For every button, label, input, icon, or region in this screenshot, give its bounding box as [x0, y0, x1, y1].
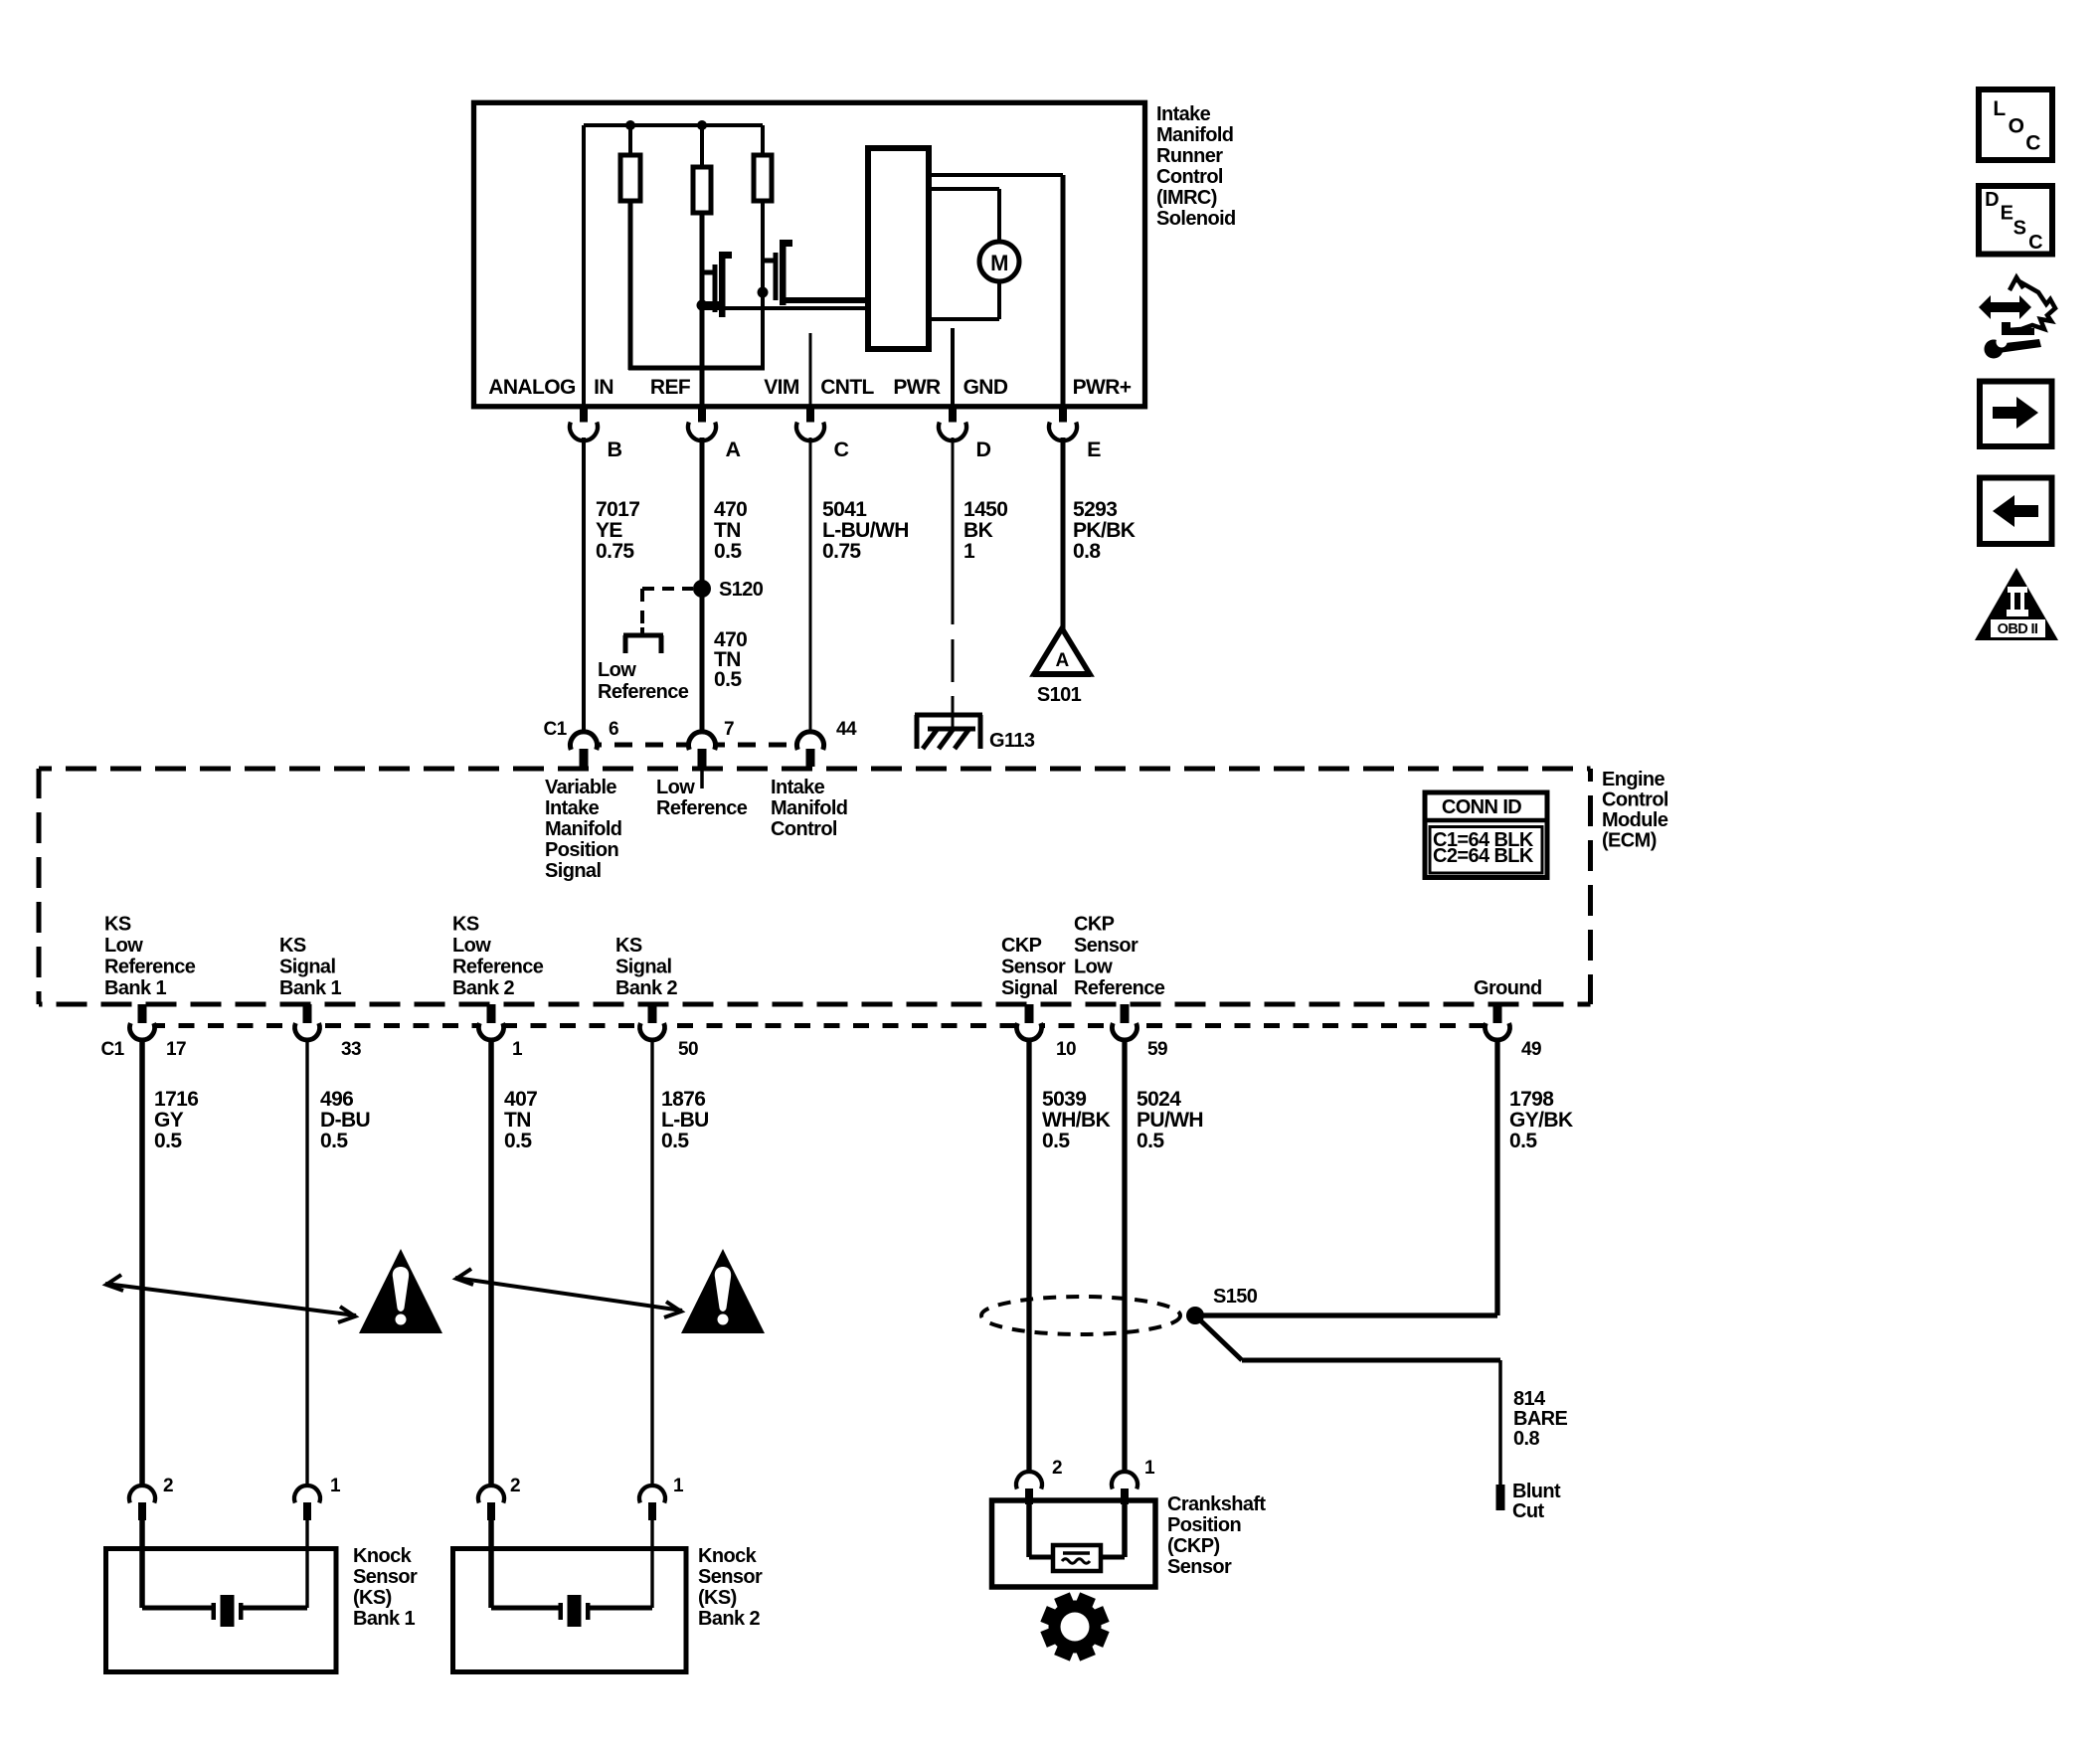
svg-text:0.5: 0.5	[504, 1130, 532, 1152]
svg-text:E: E	[2001, 203, 2013, 225]
svg-text:L-BU: L-BU	[661, 1109, 709, 1132]
svg-text:OBD II: OBD II	[1998, 621, 2038, 637]
svg-text:Low: Low	[598, 659, 636, 681]
svg-text:IN: IN	[594, 376, 613, 399]
svg-text:0.5: 0.5	[714, 668, 742, 691]
svg-text:0.75: 0.75	[822, 540, 861, 563]
svg-text:Bank 1: Bank 1	[104, 977, 166, 999]
svg-text:0.8: 0.8	[1073, 540, 1101, 563]
svg-text:G113: G113	[989, 730, 1035, 752]
svg-text:44: 44	[836, 719, 857, 740]
svg-text:BK: BK	[963, 519, 993, 542]
svg-text:VIM: VIM	[764, 376, 799, 399]
svg-text:Blunt: Blunt	[1512, 1481, 1561, 1502]
svg-text:7017: 7017	[596, 498, 639, 521]
svg-text:Engine: Engine	[1602, 769, 1665, 790]
svg-text:1450: 1450	[963, 498, 1007, 521]
svg-text:1: 1	[330, 1476, 341, 1496]
svg-text:GY: GY	[154, 1109, 184, 1132]
svg-text:C2=64 BLK: C2=64 BLK	[1433, 845, 1534, 867]
svg-text:17: 17	[166, 1039, 186, 1060]
svg-text:Manifold: Manifold	[1156, 124, 1233, 146]
svg-text:GND: GND	[963, 376, 1008, 399]
svg-text:1798: 1798	[1509, 1088, 1554, 1111]
svg-text:Signal: Signal	[615, 957, 671, 978]
svg-text:Control: Control	[1156, 166, 1223, 188]
svg-text:1: 1	[512, 1039, 523, 1060]
svg-text:D: D	[976, 438, 991, 461]
svg-text:YE: YE	[596, 519, 622, 542]
svg-text:Ground: Ground	[1474, 977, 1542, 999]
svg-text:TN: TN	[504, 1109, 531, 1132]
svg-text:Sensor: Sensor	[353, 1566, 418, 1588]
svg-text:(ECM): (ECM)	[1602, 830, 1657, 852]
svg-text:Knock: Knock	[698, 1545, 758, 1567]
svg-text:1: 1	[963, 540, 975, 563]
svg-text:Crankshaft: Crankshaft	[1167, 1493, 1266, 1515]
svg-text:Position: Position	[1167, 1514, 1241, 1536]
svg-text:50: 50	[678, 1039, 698, 1060]
svg-text:(KS): (KS)	[353, 1587, 392, 1609]
svg-text:1716: 1716	[154, 1088, 198, 1111]
svg-text:0.5: 0.5	[1137, 1130, 1164, 1152]
svg-text:0.5: 0.5	[714, 540, 742, 563]
svg-text:D: D	[1985, 189, 1999, 211]
svg-text:470: 470	[714, 498, 747, 521]
svg-text:PU/WH: PU/WH	[1137, 1109, 1203, 1132]
svg-text:0.8: 0.8	[1513, 1428, 1539, 1450]
svg-text:PWR: PWR	[893, 376, 941, 399]
svg-text:Bank 1: Bank 1	[279, 977, 341, 999]
svg-text:0.5: 0.5	[320, 1130, 348, 1152]
svg-text:Bank 2: Bank 2	[615, 977, 677, 999]
svg-text:O: O	[2009, 115, 2024, 138]
svg-text:1: 1	[673, 1476, 684, 1496]
svg-text:Runner: Runner	[1156, 145, 1223, 167]
svg-text:KS: KS	[104, 914, 131, 936]
svg-text:Sensor: Sensor	[1074, 935, 1138, 957]
svg-text:WH/BK: WH/BK	[1042, 1109, 1111, 1132]
svg-text:TN: TN	[714, 519, 741, 542]
svg-text:Intake: Intake	[771, 777, 825, 798]
svg-text:10: 10	[1056, 1039, 1076, 1060]
svg-text:L: L	[1993, 97, 2006, 120]
svg-text:59: 59	[1147, 1039, 1167, 1060]
svg-text:Control: Control	[771, 818, 837, 840]
svg-text:C: C	[834, 438, 849, 461]
svg-text:Sensor: Sensor	[1001, 957, 1066, 978]
svg-text:Reference: Reference	[598, 681, 689, 703]
svg-text:Sensor: Sensor	[1167, 1556, 1232, 1578]
svg-text:0.5: 0.5	[661, 1130, 689, 1152]
svg-text:KS: KS	[279, 935, 306, 957]
svg-text:Bank 1: Bank 1	[353, 1608, 415, 1630]
svg-text:C1: C1	[100, 1039, 124, 1060]
svg-text:7: 7	[724, 719, 734, 740]
svg-text:ANALOG: ANALOG	[488, 376, 576, 399]
svg-text:Module: Module	[1602, 809, 1668, 831]
svg-text:E: E	[1087, 438, 1101, 461]
svg-text:Control: Control	[1602, 789, 1668, 811]
svg-text:Low: Low	[452, 935, 491, 957]
svg-text:Reference: Reference	[656, 797, 748, 819]
svg-text:C1: C1	[543, 719, 567, 740]
svg-text:Manifold: Manifold	[771, 797, 847, 819]
svg-text:PWR+: PWR+	[1073, 376, 1132, 399]
svg-text:(KS): (KS)	[698, 1587, 737, 1609]
svg-text:Low: Low	[104, 935, 143, 957]
svg-text:1876: 1876	[661, 1088, 705, 1111]
svg-text:GY/BK: GY/BK	[1509, 1109, 1573, 1132]
svg-text:S150: S150	[1213, 1286, 1258, 1308]
svg-text:Low: Low	[1074, 957, 1113, 978]
svg-text:CONN ID: CONN ID	[1442, 796, 1521, 818]
svg-text:S101: S101	[1037, 684, 1082, 706]
svg-text:Cut: Cut	[1512, 1500, 1544, 1522]
svg-text:2: 2	[1052, 1458, 1062, 1479]
svg-text:Reference: Reference	[452, 957, 544, 978]
svg-text:5039: 5039	[1042, 1088, 1086, 1111]
svg-text:Intake: Intake	[545, 797, 600, 819]
svg-text:Bank 2: Bank 2	[452, 977, 514, 999]
svg-text:2: 2	[163, 1476, 173, 1496]
svg-text:814: 814	[1513, 1388, 1546, 1410]
svg-text:C: C	[2028, 232, 2042, 254]
svg-text:2: 2	[510, 1476, 520, 1496]
svg-text:Position: Position	[545, 839, 618, 861]
svg-text:Bank 2: Bank 2	[698, 1608, 760, 1630]
svg-text:5024: 5024	[1137, 1088, 1181, 1111]
svg-text:REF: REF	[650, 376, 691, 399]
svg-text:33: 33	[341, 1039, 361, 1060]
svg-text:Solenoid: Solenoid	[1156, 208, 1236, 230]
svg-text:(IMRC): (IMRC)	[1156, 187, 1217, 209]
svg-text:0.5: 0.5	[154, 1130, 182, 1152]
svg-text:Signal: Signal	[1001, 977, 1057, 999]
svg-text:Knock: Knock	[353, 1545, 413, 1567]
svg-text:A: A	[726, 438, 741, 461]
svg-text:D-BU: D-BU	[320, 1109, 370, 1132]
svg-text:Signal: Signal	[279, 957, 335, 978]
svg-text:C: C	[2025, 132, 2040, 155]
svg-text:KS: KS	[615, 935, 642, 957]
svg-text:KS: KS	[452, 914, 479, 936]
svg-text:BARE: BARE	[1513, 1408, 1568, 1430]
svg-text:Signal: Signal	[545, 860, 601, 882]
svg-text:5293: 5293	[1073, 498, 1117, 521]
svg-text:Sensor: Sensor	[698, 1566, 763, 1588]
svg-text:S120: S120	[719, 579, 764, 601]
svg-text:S: S	[2013, 218, 2026, 240]
svg-text:PK/BK: PK/BK	[1073, 519, 1136, 542]
svg-text:496: 496	[320, 1088, 353, 1111]
svg-text:L-BU/WH: L-BU/WH	[822, 519, 909, 542]
svg-text:CKP: CKP	[1074, 914, 1115, 936]
svg-text:B: B	[608, 438, 622, 461]
svg-text:Intake: Intake	[1156, 103, 1211, 125]
svg-text:CKP: CKP	[1001, 935, 1042, 957]
svg-text:Low: Low	[656, 777, 695, 798]
svg-text:1: 1	[1144, 1458, 1155, 1479]
svg-text:CNTL: CNTL	[820, 376, 874, 399]
svg-text:Variable: Variable	[545, 777, 616, 798]
svg-text:0.75: 0.75	[596, 540, 634, 563]
svg-text:Reference: Reference	[104, 957, 196, 978]
svg-text:0.5: 0.5	[1042, 1130, 1070, 1152]
svg-text:6: 6	[609, 719, 618, 740]
svg-text:49: 49	[1521, 1039, 1541, 1060]
svg-text:5041: 5041	[822, 498, 867, 521]
svg-text:Reference: Reference	[1074, 977, 1165, 999]
svg-text:0.5: 0.5	[1509, 1130, 1537, 1152]
svg-text:407: 407	[504, 1088, 537, 1111]
svg-text:Manifold: Manifold	[545, 818, 621, 840]
svg-text:A: A	[1055, 650, 1069, 671]
svg-text:M: M	[990, 251, 1008, 275]
svg-text:(CKP): (CKP)	[1167, 1535, 1220, 1557]
